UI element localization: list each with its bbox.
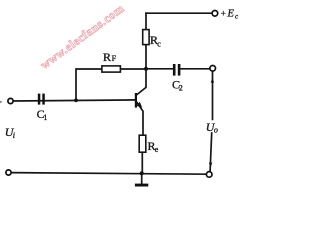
svg-text:1: 1 [43,113,47,122]
svg-text:+: + [221,8,226,18]
svg-text:c: c [157,39,161,48]
svg-text:o: o [214,126,218,135]
svg-text:2: 2 [179,84,183,93]
svg-text:E: E [227,8,235,19]
svg-text:i: i [13,131,15,140]
svg-text:e: e [155,145,159,154]
svg-text:F: F [112,54,117,63]
svg-text:R: R [103,50,111,64]
